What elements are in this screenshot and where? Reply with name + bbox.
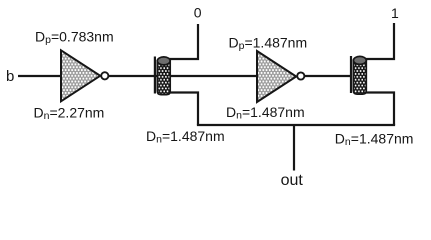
svg-text:1: 1 [391, 5, 399, 21]
Q2 top cap [353, 56, 366, 64]
wire node 0 vertical to Q1 drain [169, 24, 199, 59]
Q2 channel body [353, 60, 366, 94]
inverter U1 [61, 50, 108, 101]
svg-text:b: b [6, 68, 14, 85]
svg-text:Dn=1.487nm: Dn=1.487nm [226, 104, 305, 122]
svg-text:0: 0 [194, 5, 202, 21]
wire Q1 source to bottom rail [169, 93, 199, 126]
wire b to inverter U1 input [18, 75, 61, 77]
transistor Q2 [351, 56, 366, 94]
svg-text:Dp=1.487nm: Dp=1.487nm [229, 34, 308, 52]
inverter U2 [257, 51, 304, 102]
wire node 1 vertical to Q2 drain [366, 23, 394, 59]
Q1 gate bar [154, 57, 156, 94]
svg-text:Dn=2.27nm: Dn=2.27nm [34, 105, 105, 123]
transistor Q1 [155, 57, 170, 95]
svg-text:out: out [281, 172, 304, 189]
svg-text:Dp=0.783nm: Dp=0.783nm [35, 29, 114, 47]
wire out stub [293, 125, 295, 171]
wire bottom out rail [197, 124, 395, 126]
svg-text:Dn=1.487nm: Dn=1.487nm [146, 128, 225, 146]
Q1 top cap [157, 57, 170, 65]
svg-text:Dn=1.487nm: Dn=1.487nm [335, 131, 414, 149]
Q1 channel body [157, 61, 170, 95]
wire U2 output to Q2 gate [305, 75, 353, 77]
wire U1 output to Q1 gate and inverter U2 input [109, 75, 258, 77]
Q2 gate bar [350, 56, 352, 93]
wire Q2 source to bottom rail [366, 93, 394, 126]
